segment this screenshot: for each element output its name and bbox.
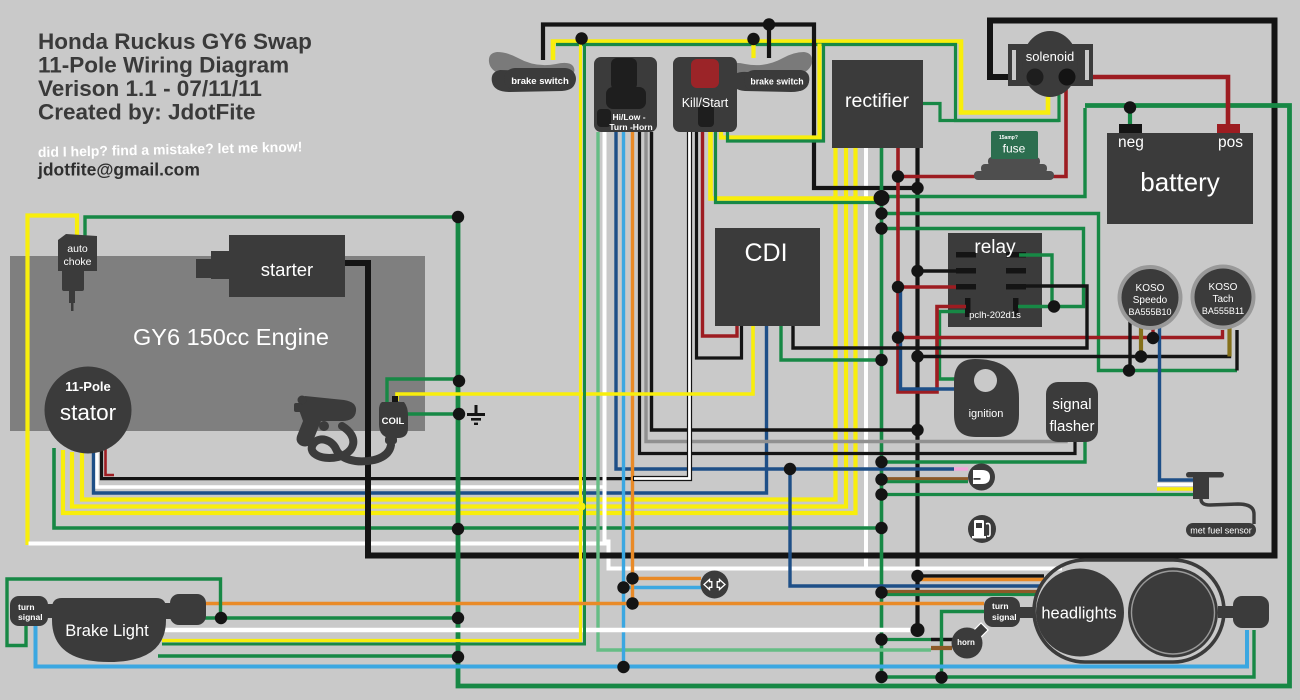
- wire black hi-low wire 2: [652, 132, 918, 430]
- svg-text:Turn -Horn: Turn -Horn: [609, 122, 652, 132]
- node junction black gauges: [911, 350, 923, 362]
- wire pink sensor stub: [954, 467, 968, 470]
- wire yellow right brake switch stub: [751, 39, 755, 58]
- wire green turn signal branch: [942, 612, 985, 678]
- node junction green CDI: [875, 354, 887, 366]
- wire orange hi-low wire: [631, 132, 634, 604]
- node junction lightblue brake: [617, 661, 629, 673]
- svg-text:choke: choke: [63, 256, 91, 268]
- wire white fuel sensor: [1157, 483, 1196, 486]
- node junction green turnsignal: [875, 671, 887, 683]
- svg-text:Brake Light: Brake Light: [65, 622, 149, 640]
- wire green brake light: [162, 45, 585, 645]
- brake switch left: [489, 52, 576, 92]
- node junction navy branch: [784, 463, 796, 475]
- node junction yellow brake tap: [575, 32, 587, 44]
- svg-text:fuse: fuse: [1003, 142, 1026, 156]
- wire white brake light: [162, 628, 918, 632]
- node junction green brake left: [215, 612, 227, 624]
- wire stator green AC: [54, 448, 882, 528]
- wire blue ignition feed: [901, 290, 956, 389]
- wire kill-start red to CDI: [703, 132, 738, 336]
- ignition coil: [379, 396, 408, 444]
- wire green relay to ignition: [940, 312, 966, 380]
- wire starter to solenoid black loop: [345, 21, 1275, 556]
- wire black right brake switch stub: [767, 25, 771, 59]
- KOSO tach gauge: [1191, 265, 1256, 330]
- wire stator white: [97, 450, 605, 487]
- svg-text:brake switch: brake switch: [511, 76, 569, 87]
- fuse: [974, 131, 1054, 180]
- wire speedo olive pin: [1139, 320, 1143, 357]
- svg-text:Kill/Start: Kill/Start: [682, 96, 729, 110]
- wire orange indicator stub: [633, 577, 702, 580]
- svg-text:Verison 1.1 - 07/11/11: Verison 1.1 - 07/11/11: [38, 76, 262, 101]
- node junction relay green: [1048, 300, 1060, 312]
- svg-text:met fuel sensor: met fuel sensor: [1190, 526, 1252, 536]
- node junction green gauges branch: [875, 207, 887, 219]
- svg-text:pclh-202d1s: pclh-202d1s: [969, 310, 1021, 321]
- svg-text:Tach: Tach: [1212, 294, 1233, 305]
- wire red relay row3: [898, 285, 956, 288]
- node junction speedo olive: [1135, 350, 1147, 362]
- wire stator blue to CDI: [94, 326, 767, 493]
- wire pale green horn wire: [598, 132, 931, 650]
- spark plug: [294, 396, 391, 462]
- wire lightblue hi-low wire: [622, 132, 625, 667]
- wire coil green ground: [405, 412, 459, 415]
- node junction white brake end: [911, 623, 925, 637]
- node junction black relay: [911, 265, 923, 277]
- switch hi/low turn horn: [594, 57, 657, 132]
- battery: [1107, 124, 1253, 224]
- node junction yellow right switch: [747, 33, 759, 45]
- wire stator black: [102, 448, 634, 479]
- node junction green choke: [452, 211, 464, 223]
- svg-text:horn: horn: [957, 638, 975, 647]
- wire kill-start green loop: [728, 46, 824, 141]
- wire yellow brake light: [162, 39, 581, 641]
- wire white jog to headlights: [606, 542, 1062, 569]
- svg-text:starter: starter: [261, 259, 313, 280]
- wire stator yellow 2: [72, 148, 846, 507]
- svg-text:11-Pole Wiring Diagram: 11-Pole Wiring Diagram: [38, 53, 289, 78]
- wire yellow fuel sensor: [1157, 487, 1196, 491]
- wire auto choke green: [85, 217, 458, 236]
- wire green flasher line: [882, 438, 1086, 462]
- wire speedo red pin: [1151, 320, 1154, 338]
- wire rectifier green bus: [880, 148, 884, 677]
- wire black relay row2: [918, 269, 957, 272]
- wire green rectifier to relay: [882, 229, 1084, 307]
- wire orange headlight feed: [918, 578, 1047, 581]
- node junction speedo black: [1123, 364, 1135, 376]
- solenoid: [1008, 31, 1093, 97]
- wire black hi-low wire 1: [640, 132, 1076, 454]
- wire black CDI to relay: [793, 286, 1087, 348]
- node junction black headlight: [911, 570, 923, 582]
- wire green horn feed: [882, 638, 932, 641]
- svg-text:11-Pole: 11-Pole: [65, 379, 111, 394]
- wire stator yellow 1: [63, 148, 856, 513]
- node junction green relay branch: [875, 222, 887, 234]
- svg-text:neg: neg: [1118, 134, 1144, 151]
- svg-text:KOSO: KOSO: [1209, 282, 1238, 293]
- node junction green sensor: [875, 473, 887, 485]
- wire green rectifier to gauges: [882, 214, 1238, 371]
- node junction black right switch: [763, 18, 775, 30]
- svg-text:Honda Ruckus GY6 Swap: Honda Ruckus GY6 Swap: [38, 29, 312, 54]
- node junction brake lamp green: [452, 651, 464, 663]
- svg-text:GY6 150cc Engine: GY6 150cc Engine: [133, 324, 329, 350]
- svg-text:signal: signal: [992, 612, 1017, 622]
- auto choke: [58, 234, 97, 311]
- svg-text:auto: auto: [67, 243, 88, 255]
- node junction coil ground: [453, 408, 465, 420]
- node junction brake green: [452, 612, 464, 624]
- svg-text:turn: turn: [18, 602, 35, 612]
- wire black horn stub: [931, 638, 954, 641]
- wire kill-start green: [716, 132, 877, 203]
- wire gray flasher wire: [646, 132, 1066, 442]
- wire rectifier red bus: [898, 148, 966, 392]
- wire green headlight feed: [882, 593, 1039, 596]
- wire green rectifier right pin to solenoid: [923, 104, 1059, 121]
- wire kill-start yellow loop: [721, 44, 820, 138]
- wire lightblue brake to headlight: [36, 626, 1248, 667]
- svg-text:KOSO: KOSO: [1136, 283, 1165, 294]
- wire red fuse line: [898, 82, 1066, 177]
- wire tach olive pin: [1227, 320, 1231, 357]
- wire yellow brake-switch bus to solenoid: [553, 42, 1048, 113]
- met fuel sensor: [1186, 472, 1256, 537]
- svg-text:signal: signal: [18, 612, 43, 622]
- wire green kill-switch bus to solenoid: [556, 45, 1059, 121]
- wire black headlight feed: [918, 574, 1045, 577]
- svg-text:Created by: JdotFite: Created by: JdotFite: [38, 100, 256, 125]
- svg-text:rectifier: rectifier: [845, 90, 909, 112]
- node junction green stator end: [875, 522, 887, 534]
- wire navy headlight branch: [790, 469, 1040, 586]
- turn indicator icon: [701, 571, 729, 599]
- node junction red relay: [892, 281, 904, 293]
- svg-text:Speedo: Speedo: [1133, 295, 1168, 306]
- wire green turnsignal lower: [882, 630, 1255, 677]
- node junction green horn: [875, 633, 887, 645]
- brake switch right: [727, 52, 813, 92]
- node junction battery neg green: [1124, 101, 1136, 113]
- node junction orange brake: [626, 597, 638, 609]
- switch kill/start: [673, 57, 737, 132]
- headlights: [1034, 560, 1224, 662]
- brake light: [10, 594, 206, 662]
- wire black gauges line: [918, 330, 1230, 357]
- wire yellow CDI to coil: [397, 326, 753, 401]
- wire kill-start yellow: [711, 132, 875, 199]
- svg-text:COIL: COIL: [382, 416, 405, 427]
- rectifier: [832, 60, 923, 148]
- node junction green flasher: [875, 456, 887, 468]
- wire coil green top loop: [387, 379, 459, 403]
- turn signal connector right: [984, 597, 1034, 627]
- wire navy hi-low wire: [616, 132, 954, 469]
- KOSO speedo gauge: [1118, 265, 1183, 330]
- node junction red fuse: [892, 170, 904, 182]
- wire green sensor line: [882, 480, 969, 483]
- fuel pump icon: [968, 515, 996, 543]
- svg-text:pos: pos: [1218, 134, 1243, 151]
- svg-text:Hi/Low -: Hi/Low -: [612, 112, 645, 122]
- wire green CDI pin: [781, 326, 882, 360]
- wire brown horn stub: [931, 646, 952, 650]
- speed sensor icon: [968, 464, 995, 491]
- wire rectifier white pin: [864, 148, 868, 569]
- CDI unit: [715, 228, 820, 326]
- wire green bus to brake light: [221, 616, 458, 619]
- node junction speedo red: [1147, 332, 1159, 344]
- wire green main bus: [458, 106, 1290, 687]
- svg-text:jdotfite@gmail.com: jdotfite@gmail.com: [37, 160, 200, 180]
- svg-text:battery: battery: [1140, 167, 1220, 197]
- signal flasher: [1046, 382, 1098, 442]
- ground: [467, 405, 485, 425]
- wire speedo black pin: [1128, 320, 1131, 371]
- wire orange brake light: [206, 602, 984, 605]
- node junction green turn branch: [935, 671, 947, 683]
- wire green battery neg stub: [1128, 106, 1132, 127]
- wire brown sensor line: [882, 477, 969, 480]
- node yellow stator tap: [578, 503, 586, 511]
- wire brown headlight feed: [882, 590, 1039, 593]
- svg-text:brake switch: brake switch: [750, 77, 803, 87]
- engine block GY6 150cc: [10, 256, 425, 431]
- svg-text:CDI: CDI: [744, 239, 787, 267]
- wire speedo navy pin to fuel sensor: [1160, 320, 1197, 480]
- svg-text:stator: stator: [60, 400, 117, 425]
- wire white hi-low to headlights: [29, 132, 605, 544]
- svg-text:BA555B11: BA555B11: [1202, 306, 1244, 316]
- node junction black hilow: [911, 424, 923, 436]
- wire green turn loop: [7, 579, 221, 646]
- node junction black brake bus: [911, 182, 923, 194]
- wire red gauges line: [898, 330, 1223, 338]
- node junction green met fuel: [875, 488, 887, 500]
- wire lightblue indicator stub: [624, 586, 702, 589]
- node junction green headlight: [875, 586, 887, 598]
- wire green met fuel line: [882, 493, 1197, 496]
- wire rectifier black bus: [915, 148, 919, 630]
- node junction coil green top: [453, 375, 465, 387]
- svg-text:flasher: flasher: [1049, 418, 1094, 435]
- horn: [952, 623, 989, 659]
- wire stator red stub: [106, 448, 115, 475]
- ignition switch: [954, 359, 1019, 437]
- node junction orange indicator: [626, 572, 638, 584]
- wire kill-start black to CDI: [697, 127, 742, 358]
- svg-text:solenoid: solenoid: [1026, 49, 1074, 64]
- wire stator yellow 3: [82, 148, 836, 500]
- wire green rectifier to battery bus: [882, 108, 1086, 197]
- svg-text:relay: relay: [974, 237, 1016, 258]
- headlight connector right: [1218, 596, 1269, 628]
- wire green right box stub: [204, 616, 221, 619]
- wire black brake-switch bus: [543, 25, 918, 189]
- node junction red gauges: [892, 331, 904, 343]
- node junction green killstart: [874, 190, 890, 206]
- relay pclh-202d1s: [948, 233, 1042, 327]
- stator 11-pole: [45, 367, 132, 454]
- svg-text:BA555B10: BA555B10: [1128, 307, 1171, 317]
- wire red solenoid to battery pos: [1063, 77, 1228, 126]
- svg-text:turn: turn: [992, 601, 1009, 611]
- svg-text:ignition: ignition: [969, 408, 1004, 420]
- wire tach black pin: [1235, 330, 1238, 371]
- starter: [196, 235, 345, 297]
- wire auto choke yellow: [28, 216, 78, 546]
- node junction stator green: [452, 523, 464, 535]
- wire green relay top pin: [1019, 255, 1052, 307]
- wire green brake light lamp: [158, 654, 458, 657]
- svg-text:headlights: headlights: [1041, 605, 1116, 623]
- node junction lightblue indicator: [617, 581, 629, 593]
- svg-text:signal: signal: [1052, 396, 1091, 413]
- svg-text:15amp?: 15amp?: [999, 135, 1018, 141]
- wire kill-start white striped: [633, 132, 690, 479]
